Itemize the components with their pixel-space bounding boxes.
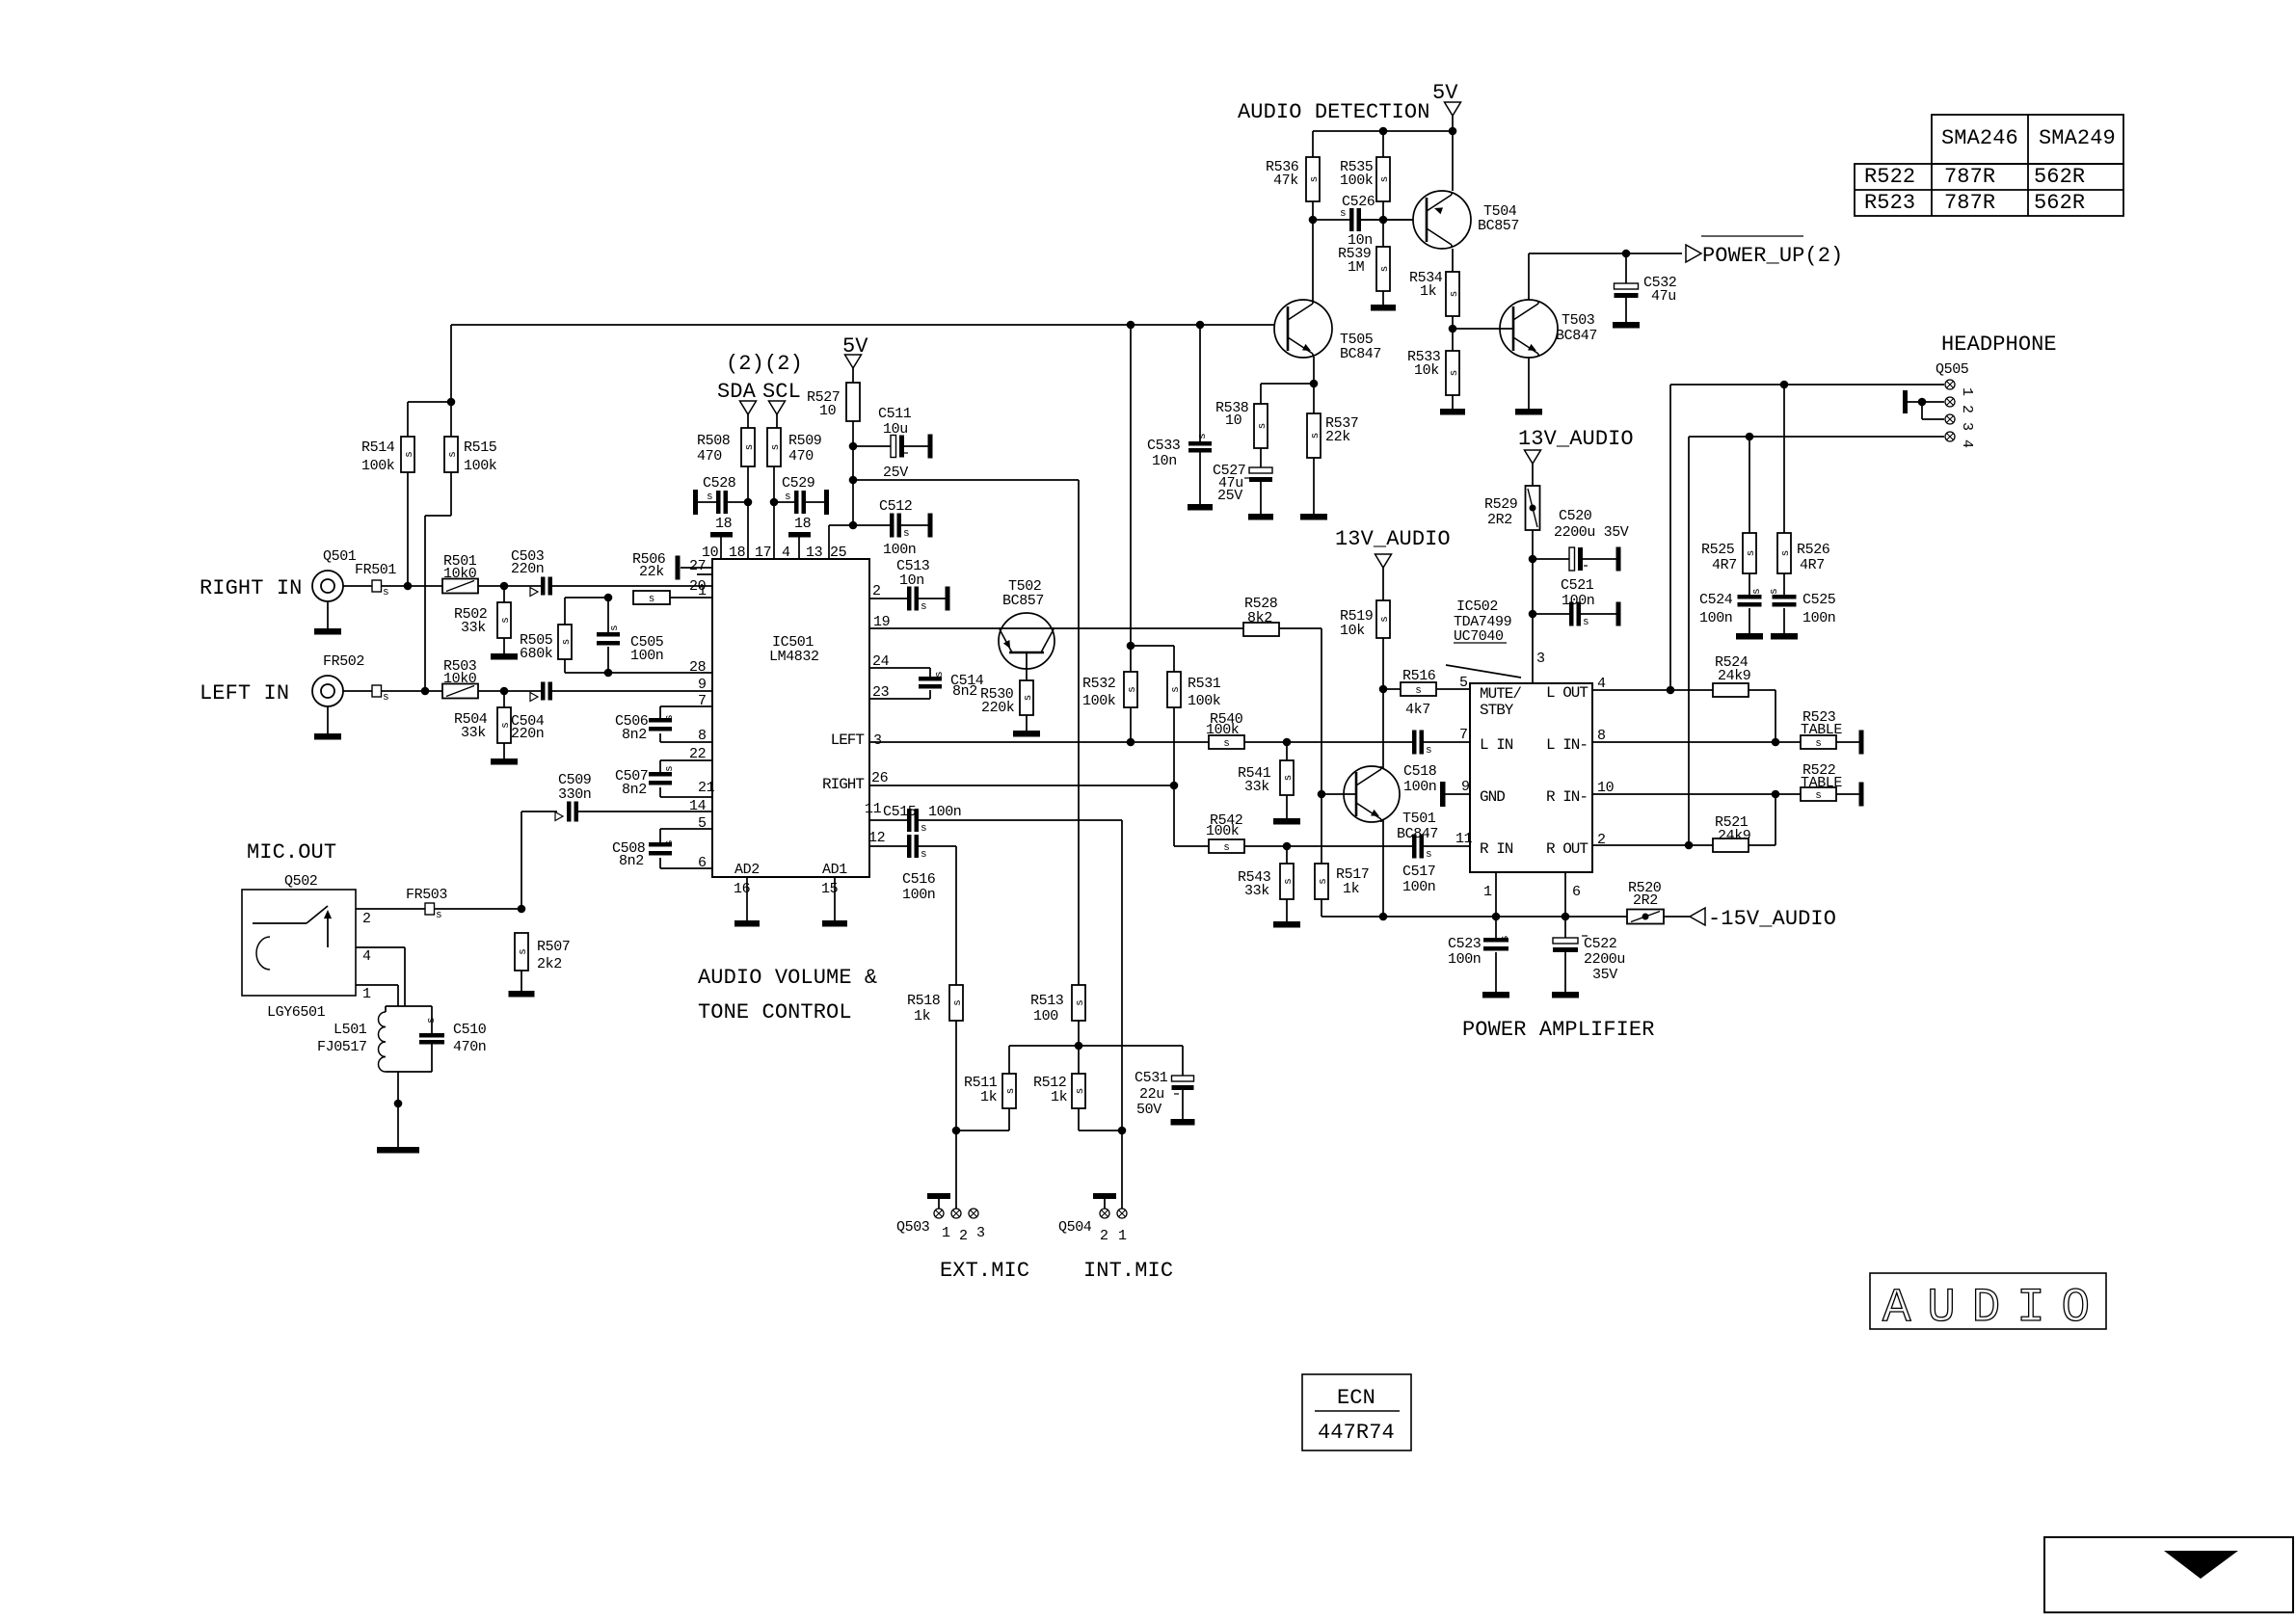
svg-text:s: s — [921, 601, 927, 613]
svg-text:POWER_UP(2): POWER_UP(2) — [1702, 244, 1843, 268]
svg-text:s: s — [903, 528, 910, 540]
svg-text:LEFT IN: LEFT IN — [200, 681, 289, 705]
svg-text:C533: C533 — [1147, 438, 1181, 454]
svg-text:s: s — [1583, 617, 1589, 628]
svg-text:MIC.OUT: MIC.OUT — [247, 840, 336, 865]
svg-text:4R7: 4R7 — [1712, 557, 1737, 573]
svg-text:5: 5 — [1459, 675, 1468, 691]
svg-text:C518: C518 — [1403, 763, 1437, 780]
svg-text:1k: 1k — [1343, 881, 1360, 897]
svg-text:100k: 100k — [464, 458, 497, 474]
svg-text:10n: 10n — [1348, 232, 1373, 249]
svg-text:10: 10 — [1225, 412, 1242, 429]
svg-text:562R: 562R — [2034, 191, 2085, 215]
svg-text:T501: T501 — [1402, 811, 1436, 827]
svg-text:STBY: STBY — [1480, 702, 1514, 719]
svg-text:1: 1 — [1118, 1228, 1127, 1244]
svg-text:FJ0517: FJ0517 — [317, 1039, 367, 1055]
svg-text:9: 9 — [1461, 779, 1470, 795]
svg-text:INT.MIC: INT.MIC — [1083, 1259, 1173, 1283]
svg-text:50V: 50V — [1136, 1102, 1161, 1118]
svg-text:33k: 33k — [1244, 883, 1269, 899]
svg-text:1: 1 — [1959, 387, 1975, 396]
svg-text:C528: C528 — [703, 475, 736, 492]
svg-text:s: s — [770, 444, 782, 451]
svg-text:TABLE: TABLE — [1801, 722, 1842, 738]
svg-text:TABLE: TABLE — [1801, 775, 1842, 791]
svg-text:C524: C524 — [1699, 592, 1733, 608]
svg-text:100n: 100n — [1448, 951, 1481, 968]
svg-text:s: s — [921, 823, 927, 835]
svg-text:8n2: 8n2 — [952, 683, 977, 700]
svg-text:24k9: 24k9 — [1718, 668, 1750, 684]
svg-text:C526: C526 — [1342, 194, 1375, 210]
svg-text:13V_AUDIO: 13V_AUDIO — [1335, 527, 1451, 551]
svg-text:Q504: Q504 — [1058, 1219, 1092, 1236]
svg-text:100n: 100n — [1562, 593, 1594, 609]
svg-text:R525: R525 — [1701, 542, 1735, 558]
svg-text:8n2: 8n2 — [619, 853, 644, 869]
svg-text:R531: R531 — [1188, 676, 1221, 692]
svg-text:18: 18 — [729, 545, 746, 561]
svg-text:T503: T503 — [1562, 312, 1595, 329]
svg-text:R509: R509 — [788, 433, 821, 449]
svg-text:s: s — [744, 444, 756, 451]
svg-text:10: 10 — [819, 403, 837, 419]
svg-text:SMA246: SMA246 — [1941, 126, 2018, 150]
svg-text:26: 26 — [871, 770, 889, 786]
svg-text:22k: 22k — [1325, 429, 1350, 445]
svg-text:LGY6501: LGY6501 — [267, 1004, 326, 1021]
svg-text:FR502: FR502 — [323, 653, 364, 670]
svg-text:6: 6 — [1572, 884, 1581, 900]
svg-text:10u: 10u — [883, 421, 908, 438]
svg-text:16: 16 — [734, 881, 751, 897]
svg-text:2: 2 — [1100, 1228, 1108, 1244]
svg-text:28: 28 — [689, 659, 707, 676]
svg-text:s: s — [1257, 423, 1268, 430]
svg-text:562R: 562R — [2034, 165, 2085, 189]
svg-text:C510: C510 — [453, 1022, 487, 1038]
svg-text:s: s — [1223, 842, 1230, 854]
svg-text:AD1: AD1 — [822, 862, 847, 878]
svg-text:33k: 33k — [461, 725, 486, 741]
svg-text:3: 3 — [1959, 422, 1975, 431]
svg-text:BC847: BC847 — [1340, 346, 1381, 362]
svg-text:100k: 100k — [1206, 722, 1240, 738]
svg-text:8n2: 8n2 — [622, 782, 647, 798]
svg-text:R514: R514 — [361, 439, 395, 456]
svg-text:R529: R529 — [1484, 496, 1517, 513]
svg-text:C517: C517 — [1402, 864, 1435, 880]
svg-text:100n: 100n — [1699, 610, 1732, 626]
svg-text:s: s — [500, 617, 512, 624]
svg-text:1k: 1k — [1051, 1089, 1068, 1105]
svg-text:220n: 220n — [511, 726, 544, 742]
svg-text:1: 1 — [698, 583, 707, 599]
svg-text:C521: C521 — [1561, 577, 1594, 594]
svg-text:RIGHT: RIGHT — [822, 776, 864, 793]
svg-text:C529: C529 — [782, 475, 814, 492]
svg-text:787R: 787R — [1944, 165, 1995, 189]
svg-text:s: s — [383, 692, 389, 704]
svg-text:100n: 100n — [1402, 879, 1435, 895]
svg-text:GND: GND — [1480, 788, 1505, 806]
svg-text:C525: C525 — [1802, 592, 1836, 608]
svg-text:LEFT: LEFT — [831, 732, 865, 749]
svg-text:-15V_AUDIO: -15V_AUDIO — [1708, 907, 1836, 931]
svg-text:2200u: 2200u — [1584, 951, 1625, 968]
svg-text:25V: 25V — [1217, 488, 1242, 504]
svg-text:C520: C520 — [1559, 508, 1592, 524]
svg-text:1k: 1k — [914, 1008, 931, 1024]
svg-text:18: 18 — [794, 516, 812, 532]
svg-text:100n: 100n — [902, 887, 935, 903]
svg-text:7: 7 — [1459, 727, 1468, 743]
svg-text:s: s — [649, 594, 655, 605]
svg-text:47u: 47u — [1651, 288, 1676, 305]
svg-text:24k9: 24k9 — [1718, 828, 1750, 844]
svg-text:C511: C511 — [878, 406, 912, 422]
svg-text:787R: 787R — [1944, 191, 1995, 215]
svg-text:2: 2 — [959, 1228, 968, 1244]
svg-text:LM4832: LM4832 — [769, 649, 819, 665]
svg-text:11: 11 — [865, 801, 882, 817]
svg-text:BC847: BC847 — [1556, 328, 1597, 344]
svg-text:1k: 1k — [1420, 283, 1437, 300]
svg-text:s: s — [921, 849, 927, 861]
svg-text:330n: 330n — [558, 786, 591, 803]
svg-text:AUDIO VOLUME &: AUDIO VOLUME & — [698, 966, 877, 990]
svg-text:s: s — [707, 492, 713, 503]
svg-text:R518: R518 — [907, 993, 941, 1009]
svg-text:2: 2 — [1959, 405, 1975, 413]
svg-text:17: 17 — [755, 545, 771, 561]
svg-text:s: s — [785, 492, 791, 503]
svg-text:22u: 22u — [1139, 1086, 1164, 1103]
svg-text:s: s — [1379, 266, 1391, 273]
svg-text:220k: 220k — [981, 700, 1015, 716]
svg-text:s: s — [664, 839, 676, 846]
svg-text:AUDIO: AUDIO — [1882, 1281, 2106, 1335]
svg-text:s: s — [404, 451, 415, 458]
svg-text:s: s — [1075, 999, 1086, 1006]
svg-text:s: s — [1005, 1088, 1017, 1095]
svg-text:AUDIO DETECTION: AUDIO DETECTION — [1238, 100, 1430, 124]
svg-text:3: 3 — [873, 732, 882, 749]
svg-text:BC857: BC857 — [1478, 218, 1519, 234]
svg-text:L501: L501 — [334, 1022, 367, 1038]
svg-text:1: 1 — [942, 1225, 950, 1241]
svg-text:s: s — [952, 999, 964, 1006]
svg-text:3: 3 — [1536, 651, 1545, 667]
svg-text:s: s — [518, 948, 529, 955]
svg-text:4: 4 — [362, 948, 371, 965]
svg-text:15: 15 — [821, 881, 839, 897]
svg-text:10k: 10k — [1414, 362, 1439, 379]
svg-text:C523: C523 — [1448, 936, 1482, 952]
svg-text:BC857: BC857 — [1002, 593, 1044, 609]
svg-text:47k: 47k — [1273, 173, 1298, 189]
svg-text:TONE CONTROL: TONE CONTROL — [698, 1000, 852, 1024]
svg-text:s: s — [1500, 935, 1511, 942]
svg-text:4R7: 4R7 — [1800, 557, 1825, 573]
svg-text:ECN: ECN — [1337, 1386, 1375, 1410]
svg-text:10k: 10k — [1340, 623, 1365, 639]
svg-text:Q501: Q501 — [323, 548, 357, 565]
svg-text:s: s — [1379, 616, 1391, 623]
svg-text:470: 470 — [697, 448, 722, 465]
svg-text:Q503: Q503 — [896, 1219, 930, 1236]
svg-text:100n: 100n — [1403, 779, 1436, 795]
svg-text:R508: R508 — [697, 433, 731, 449]
svg-text:s: s — [383, 587, 389, 599]
svg-text:25V: 25V — [883, 465, 908, 481]
svg-text:2: 2 — [362, 911, 371, 927]
svg-text:R516: R516 — [1402, 668, 1436, 684]
svg-text:C516: C516 — [902, 871, 936, 888]
svg-text:10k0: 10k0 — [443, 671, 477, 687]
svg-text:s: s — [609, 625, 621, 631]
svg-text:s: s — [1197, 433, 1209, 439]
svg-text:FR501: FR501 — [355, 562, 396, 578]
svg-text:2R2: 2R2 — [1487, 512, 1512, 528]
svg-text:100k: 100k — [1082, 693, 1116, 709]
svg-text:s: s — [1449, 370, 1460, 377]
svg-text:8k2: 8k2 — [1247, 610, 1272, 626]
svg-text:AD2: AD2 — [734, 862, 760, 878]
svg-text:R513: R513 — [1030, 993, 1064, 1009]
svg-text:100: 100 — [1033, 1008, 1058, 1024]
svg-text:R522: R522 — [1864, 165, 1915, 189]
svg-text:2k2: 2k2 — [537, 956, 562, 972]
svg-text:s: s — [1780, 550, 1792, 557]
svg-text:22k: 22k — [639, 564, 664, 580]
svg-text:s: s — [447, 451, 459, 458]
svg-text:C512: C512 — [879, 498, 912, 515]
svg-text:2: 2 — [872, 583, 881, 599]
svg-text:s: s — [1449, 291, 1460, 298]
svg-text:25: 25 — [830, 545, 847, 561]
svg-text:s: s — [1023, 695, 1034, 702]
svg-text:s: s — [1318, 878, 1329, 885]
svg-text:35V: 35V — [1592, 967, 1617, 983]
svg-text:4: 4 — [1959, 439, 1975, 448]
svg-text:447R74: 447R74 — [1318, 1421, 1395, 1445]
svg-text:s: s — [1415, 685, 1422, 697]
svg-text:EXT.MIC: EXT.MIC — [940, 1259, 1029, 1283]
svg-text:s: s — [1310, 433, 1322, 439]
svg-text:s: s — [1426, 849, 1432, 861]
svg-text:13: 13 — [806, 545, 823, 561]
svg-text:s: s — [664, 765, 676, 772]
svg-text:100n: 100n — [928, 804, 961, 820]
svg-text:3: 3 — [976, 1225, 985, 1241]
svg-text:R526: R526 — [1797, 542, 1830, 558]
svg-text:RIGHT IN: RIGHT IN — [200, 576, 302, 600]
svg-text:s: s — [1746, 550, 1757, 557]
svg-text:4: 4 — [782, 545, 790, 561]
svg-text:R IN: R IN — [1480, 840, 1513, 858]
svg-text:C515: C515 — [883, 804, 917, 820]
svg-text:R IN-: R IN- — [1546, 788, 1588, 806]
svg-text:33k: 33k — [1244, 779, 1269, 795]
svg-text:10: 10 — [702, 545, 719, 561]
svg-text:C522: C522 — [1584, 936, 1616, 952]
svg-text:4k7: 4k7 — [1405, 702, 1430, 718]
svg-text:(2): (2) — [726, 352, 764, 376]
svg-text:18: 18 — [715, 516, 733, 532]
svg-text:100k: 100k — [1206, 823, 1240, 839]
svg-text:100n: 100n — [883, 542, 916, 558]
svg-text:11: 11 — [1455, 831, 1473, 847]
svg-text:1M: 1M — [1348, 259, 1365, 276]
svg-text:s: s — [436, 910, 442, 921]
svg-text:L IN-: L IN- — [1546, 736, 1588, 754]
svg-text:s: s — [1283, 878, 1295, 885]
svg-text:s: s — [1815, 738, 1822, 750]
svg-text:IC502: IC502 — [1456, 599, 1498, 615]
svg-text:s: s — [1815, 790, 1822, 802]
svg-text:s: s — [934, 671, 946, 678]
svg-text:R OUT: R OUT — [1546, 840, 1588, 858]
svg-text:13V_AUDIO: 13V_AUDIO — [1518, 427, 1634, 451]
svg-text:s: s — [1309, 176, 1321, 183]
svg-text:470n: 470n — [453, 1039, 486, 1055]
svg-text:10k0: 10k0 — [443, 566, 477, 582]
svg-text:C531: C531 — [1135, 1070, 1168, 1086]
svg-text:s: s — [426, 1017, 438, 1024]
svg-text:(2): (2) — [764, 352, 803, 376]
svg-text:8n2: 8n2 — [622, 727, 647, 743]
svg-text:SMA249: SMA249 — [2039, 126, 2116, 150]
svg-text:12: 12 — [868, 830, 885, 846]
svg-text:R515: R515 — [464, 439, 497, 456]
svg-text:R532: R532 — [1082, 676, 1115, 692]
svg-text:21: 21 — [698, 780, 715, 796]
svg-text:HEADPHONE: HEADPHONE — [1941, 333, 2057, 357]
svg-text:s: s — [1379, 176, 1391, 183]
svg-text:R507: R507 — [537, 939, 570, 955]
svg-text:100k: 100k — [1340, 173, 1374, 189]
svg-text:10n: 10n — [1152, 453, 1177, 469]
svg-text:2R2: 2R2 — [1633, 892, 1658, 909]
svg-text:680k: 680k — [520, 646, 553, 662]
svg-text:MUTE/: MUTE/ — [1480, 685, 1521, 703]
svg-text:1k: 1k — [980, 1089, 998, 1105]
svg-text:33k: 33k — [461, 620, 486, 636]
svg-text:R523: R523 — [1864, 191, 1915, 215]
svg-text:s: s — [1751, 588, 1763, 595]
svg-text:100n: 100n — [630, 648, 663, 664]
svg-text:s: s — [1283, 775, 1295, 782]
svg-text:POWER AMPLIFIER: POWER AMPLIFIER — [1462, 1018, 1655, 1042]
svg-text:220n: 220n — [511, 561, 544, 577]
svg-text:L OUT: L OUT — [1546, 684, 1588, 702]
svg-text:Q502: Q502 — [284, 873, 317, 890]
svg-text:1: 1 — [1483, 884, 1492, 900]
svg-text:s: s — [1127, 686, 1138, 693]
svg-text:100k: 100k — [361, 458, 395, 474]
svg-text:s: s — [1426, 745, 1432, 757]
svg-text:s: s — [1223, 738, 1230, 750]
svg-text:s: s — [1075, 1088, 1086, 1095]
svg-text:s: s — [1769, 588, 1780, 595]
svg-text:BC847: BC847 — [1397, 826, 1438, 842]
svg-text:100k: 100k — [1188, 693, 1221, 709]
svg-text:470: 470 — [788, 448, 814, 465]
svg-text:9: 9 — [698, 677, 707, 693]
svg-text:10n: 10n — [899, 572, 924, 589]
svg-text:100n: 100n — [1802, 610, 1835, 626]
svg-text:2200u 35V: 2200u 35V — [1554, 524, 1629, 541]
svg-text:L IN: L IN — [1480, 736, 1513, 754]
svg-text:s: s — [664, 714, 676, 721]
svg-text:Q505: Q505 — [1936, 361, 1969, 378]
svg-text:s: s — [1170, 686, 1182, 693]
svg-text:1: 1 — [362, 986, 371, 1002]
svg-text:FR503: FR503 — [406, 887, 447, 903]
svg-text:s: s — [561, 639, 573, 646]
